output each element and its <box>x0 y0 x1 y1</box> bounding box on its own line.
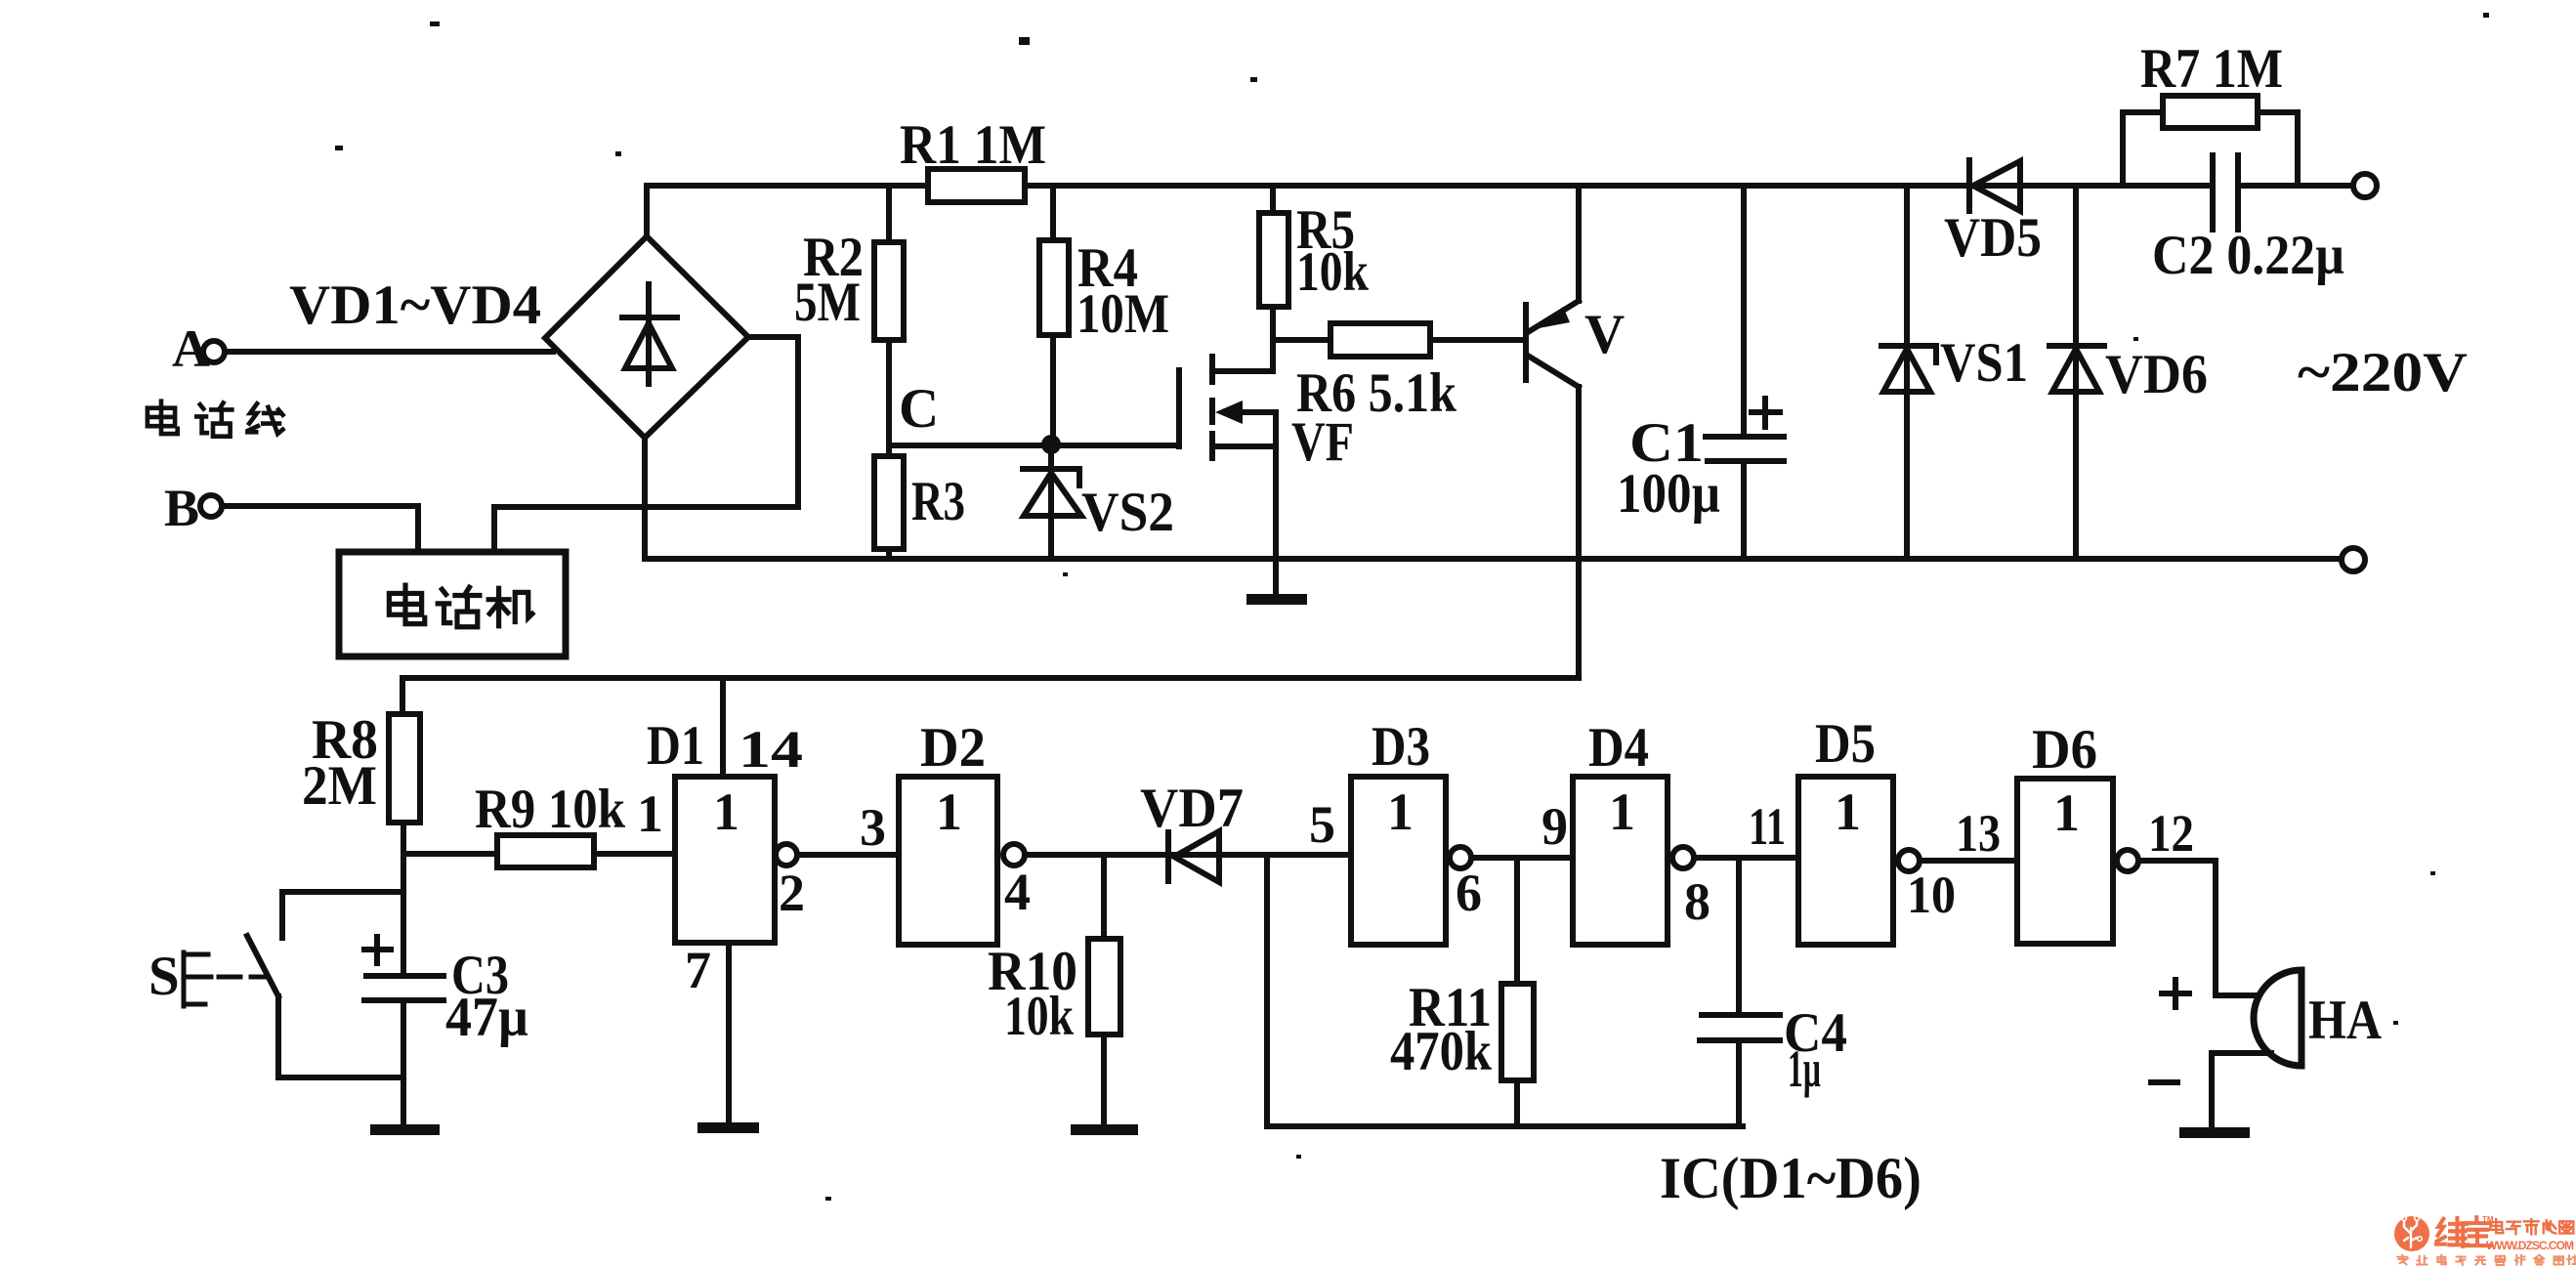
svg-text:B: B <box>164 479 199 537</box>
watermark text dianzishichangwang <box>2490 1219 2573 1234</box>
svg-text:7: 7 <box>685 941 711 999</box>
svg-text:D1: D1 <box>647 715 704 777</box>
wire: VD7 to D3 in <box>1309 795 1335 854</box>
transistor V <box>1526 186 1625 387</box>
zener diode VS2 <box>1023 444 1174 559</box>
noise specks <box>335 13 2489 1201</box>
capacitor C2 <box>2152 155 2344 286</box>
svg-text:TM: TM <box>2482 1215 2494 1224</box>
svg-text:R9 10k: R9 10k <box>475 779 625 840</box>
svg-text:3: 3 <box>860 798 886 857</box>
wire: logic supply bus <box>402 678 1579 714</box>
inverter D4 <box>1573 717 1710 945</box>
svg-text:VS2: VS2 <box>1081 482 1174 543</box>
svg-text:1µ: 1µ <box>1788 1039 1821 1098</box>
wire: D1 out to D2 in <box>797 798 899 857</box>
MOSFET VF <box>1179 307 1354 559</box>
watermark TM <box>2482 1215 2494 1224</box>
resistor R1 <box>900 114 1046 202</box>
svg-text:10k: 10k <box>1004 986 1074 1047</box>
label 电话线 (telephone line) <box>148 401 283 437</box>
label ~220V <box>2298 342 2468 403</box>
label VD1~VD4 <box>289 275 541 336</box>
pin 1 label <box>637 784 663 843</box>
wire: D5 out to D6 in <box>1920 804 2017 863</box>
wire: V collector down to logic bus <box>1576 387 1582 678</box>
diode VD7 <box>1140 778 1244 882</box>
svg-text:5: 5 <box>1309 795 1335 854</box>
svg-text:47µ: 47µ <box>445 987 528 1048</box>
svg-text:2: 2 <box>779 864 805 922</box>
ground symbol (R10) <box>1071 1124 1138 1135</box>
switch S <box>148 892 403 1077</box>
resistor R9 <box>403 779 675 867</box>
terminal B <box>164 479 222 537</box>
svg-text:14: 14 <box>739 720 803 779</box>
inverter D6 <box>2017 719 2194 944</box>
svg-text:~220V: ~220V <box>2298 342 2468 403</box>
svg-text:S: S <box>148 946 180 1007</box>
wire: B to telephone box <box>223 506 418 552</box>
svg-text:R7 1M: R7 1M <box>2140 38 2283 100</box>
watermark bottom slogan row <box>2397 1255 2576 1265</box>
watermark url <box>2486 1239 2574 1252</box>
capacitor C4 <box>1700 858 1847 1126</box>
resistor R3 <box>874 456 965 559</box>
svg-text:10: 10 <box>1907 866 1956 924</box>
inverter D3 <box>1351 716 1482 945</box>
svg-text:11: 11 <box>1749 797 1786 856</box>
svg-text:2M: 2M <box>302 755 377 817</box>
wire: telephone box to bridge AC2 <box>494 337 798 552</box>
svg-text:VD5: VD5 <box>1944 207 2042 269</box>
wire: D3 out to D4 in <box>1471 797 1573 858</box>
bridge rectifier VD1~VD4 <box>545 236 748 438</box>
diode VD6 <box>2049 186 2208 559</box>
wire: D2 out to VD7 <box>1025 852 1351 858</box>
watermark text WeiKu <box>2436 1217 2492 1246</box>
ground symbol (VF source) <box>1246 559 1307 605</box>
svg-text:1: 1 <box>1387 782 1414 841</box>
resistor R11 <box>1390 858 1534 1126</box>
wire: bus to bridge top vertex <box>644 186 650 236</box>
wire: RC bottom bus <box>1267 1123 1743 1129</box>
svg-text:VD6: VD6 <box>2105 344 2208 405</box>
svg-text:IC(D1~D6): IC(D1~D6) <box>1660 1146 1921 1210</box>
wire: D1 pin7 to ground <box>685 941 729 1122</box>
node C wire <box>889 378 1176 445</box>
ground symbol (buzzer) <box>2179 1127 2250 1138</box>
svg-text:13: 13 <box>1956 804 2001 863</box>
junction dot node C <box>1041 435 1061 454</box>
capacitor C1 <box>1617 186 1784 559</box>
svg-text:470k: 470k <box>1390 1021 1492 1082</box>
svg-text:HA: HA <box>2308 990 2382 1051</box>
svg-text:D2: D2 <box>920 717 986 779</box>
svg-text:12: 12 <box>2148 804 2194 863</box>
resistor R5 <box>1259 186 1369 307</box>
svg-text:D6: D6 <box>2032 719 2097 781</box>
telephone box 电话机 <box>339 552 566 656</box>
svg-text:C: C <box>899 378 939 440</box>
svg-text:R6 5.1k: R6 5.1k <box>1296 362 1457 424</box>
diode VD5 <box>1944 160 2042 269</box>
zener diode VS1 <box>1881 186 2028 559</box>
resistor R4 <box>1039 186 1169 440</box>
svg-text:6: 6 <box>1456 864 1482 922</box>
resistor R6 <box>1273 323 1524 424</box>
wire: A to bridge left vertex <box>226 349 553 355</box>
resistor R7 <box>2123 38 2298 186</box>
svg-text:VD1~VD4: VD1~VD4 <box>289 275 541 336</box>
svg-text:V: V <box>1584 304 1625 365</box>
terminal A <box>172 319 225 378</box>
inverter D5 <box>1798 713 1956 945</box>
capacitor C3 <box>364 937 528 1124</box>
svg-text:9: 9 <box>1541 797 1568 856</box>
svg-text:D4: D4 <box>1588 717 1649 779</box>
buzzer HA <box>2151 970 2382 1082</box>
terminal top right <box>2353 174 2377 197</box>
svg-text:R1 1M: R1 1M <box>900 114 1046 176</box>
svg-text:100µ: 100µ <box>1617 463 1720 525</box>
svg-text:1: 1 <box>1609 782 1635 841</box>
resistor R2 <box>794 186 904 456</box>
wire: feedback down to RC bus <box>1264 855 1270 1126</box>
inverter D2 <box>899 717 1031 945</box>
inverter D1 <box>647 715 805 943</box>
svg-text:8: 8 <box>1684 872 1710 931</box>
svg-text:10k: 10k <box>1296 241 1369 303</box>
svg-text:1: 1 <box>637 784 663 843</box>
resistor R8 <box>302 709 420 972</box>
svg-text:1: 1 <box>1835 782 1861 841</box>
watermark logo circle <box>2394 1216 2429 1251</box>
wire: D1 pin14 riser <box>723 678 803 779</box>
ground symbol (D1 pin7) <box>697 1122 759 1133</box>
svg-text:A: A <box>172 319 210 378</box>
terminal bottom right <box>2342 548 2365 571</box>
ground symbol (C3) <box>370 1124 440 1135</box>
svg-text:5M: 5M <box>794 272 861 333</box>
svg-text:VS1: VS1 <box>1940 332 2028 394</box>
svg-text:1: 1 <box>713 782 739 841</box>
wire: D4 out to D5 in <box>1694 797 1798 858</box>
svg-text:WWW.DZSC.COM: WWW.DZSC.COM <box>2486 1239 2574 1252</box>
label IC(D1~D6) <box>1660 1146 1921 1210</box>
svg-text:1: 1 <box>936 782 962 841</box>
wire: D6 out to buzzer <box>2138 861 2261 995</box>
svg-text:D5: D5 <box>1815 713 1876 775</box>
svg-text:VD7: VD7 <box>1140 778 1244 839</box>
svg-text:R3: R3 <box>911 471 965 532</box>
svg-text:C2 0.22µ: C2 0.22µ <box>2152 225 2344 286</box>
svg-text:4: 4 <box>1004 863 1031 921</box>
wire: top supply bus <box>647 183 2354 189</box>
wire: buzzer negative to ground <box>2212 1053 2271 1127</box>
resistor R10 <box>988 855 1120 1124</box>
svg-text:D3: D3 <box>1372 716 1430 778</box>
svg-text:10M: 10M <box>1077 283 1169 345</box>
wire: bridge bottom vertex to ground rail <box>642 438 648 558</box>
wire: bottom ground rail <box>645 556 2342 562</box>
svg-text:1: 1 <box>2053 783 2080 842</box>
